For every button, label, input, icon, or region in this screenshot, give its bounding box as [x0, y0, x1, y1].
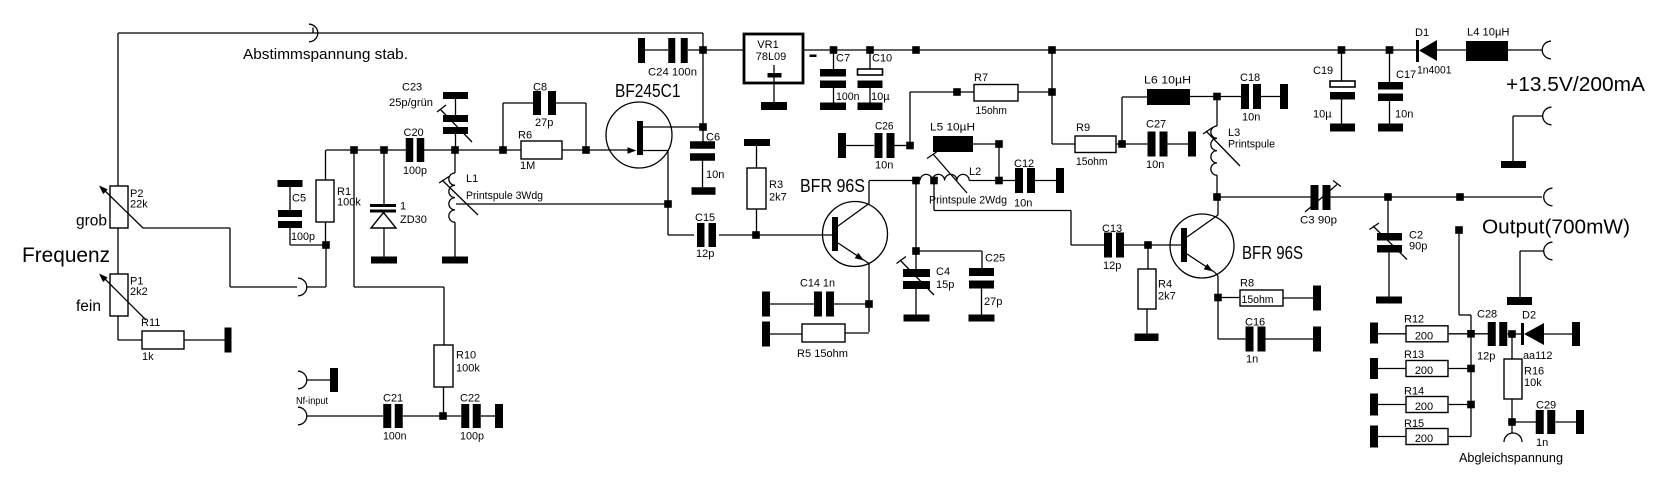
trimmer C23 arrow: [437, 105, 472, 142]
inductor L6 10uH: [1147, 89, 1190, 105]
capacitor C5 100p top terminal bar: [278, 180, 303, 187]
svg-text:R12: R12: [1404, 314, 1424, 326]
trimmer capacitor C2 90p: [1377, 197, 1402, 297]
svg-text:R8: R8: [1240, 278, 1254, 290]
svg-text:D1: D1: [1415, 27, 1429, 39]
svg-text:1: 1: [400, 201, 406, 213]
svg-text:C17: C17: [1396, 69, 1416, 81]
capacitor C23 lead: [455, 99, 457, 115]
zener ZD30 ground lead: [383, 228, 385, 257]
svg-text:22k: 22k: [130, 199, 148, 211]
node dot L6/C18/L3: [1213, 93, 1221, 101]
wire L4 to connector: [1508, 49, 1542, 51]
svg-text:BF245C1: BF245C1: [615, 81, 681, 101]
wire collector to L2: [869, 180, 920, 182]
svg-text:10µ: 10µ: [1313, 109, 1332, 121]
diode D1 1n4001 cathode bar: [1416, 40, 1419, 62]
node dot rail-503 C8/R6: [499, 146, 507, 154]
capacitor C5 plates: [278, 210, 302, 228]
svg-text:C26: C26: [875, 121, 894, 133]
inductor L1 coil Printspule 3Wdg: [449, 173, 455, 222]
svg-text:C14 1n: C14 1n: [800, 278, 835, 290]
wire source to C15: [668, 234, 694, 236]
capacitor C17 10n: [1378, 50, 1403, 124]
transistor Q1 gate arrow: [628, 147, 637, 154]
node dot output stray: [1456, 193, 1464, 201]
wire L2 tap down: [934, 181, 1104, 246]
wire C24 node to top wire: [702, 33, 704, 50]
resistor R8 15ohm: [1240, 290, 1283, 306]
inductor L5 10uH: [933, 136, 973, 152]
connector output return: [1520, 242, 1553, 297]
diode D2 terminal bar: [1572, 322, 1580, 346]
svg-text:L2: L2: [969, 166, 981, 178]
svg-text:1k: 1k: [142, 351, 154, 363]
capacitor C15 12p plates: [697, 223, 705, 247]
connector output socket: [1544, 188, 1553, 206]
node dot C4/C25: [912, 247, 920, 255]
svg-text:aa112: aa112: [1523, 350, 1553, 362]
node dot R3-base: [752, 231, 760, 239]
wire R8 right: [1283, 297, 1313, 299]
inductor L1 trimmer arrow: [439, 177, 478, 216]
transistor Q1 channel bar: [637, 121, 643, 155]
connector +13.5V input: [1542, 41, 1551, 59]
resistor R16 10k: [1504, 334, 1522, 422]
wire R5 left: [770, 333, 802, 335]
wire left drop to P2: [117, 33, 119, 186]
wire VR1 out rail: [803, 49, 1417, 51]
transistor Q2 collector: [838, 181, 869, 226]
wire C27 right: [1168, 143, 1189, 145]
trimmer capacitor C3 90p plates: [1311, 185, 1319, 210]
resistor R3 2k7 leads: [756, 146, 758, 235]
node dot L2 left: [912, 177, 920, 185]
wire node B up to R7: [910, 92, 974, 146]
svg-text:R16: R16: [1524, 366, 1544, 378]
transistor Q3 emitter lead: [1217, 276, 1219, 339]
node dot rail-455 L1/C23: [451, 146, 459, 154]
transistor Q2 BFR 96S circle: [823, 202, 888, 267]
svg-text:10n: 10n: [1242, 112, 1260, 124]
svg-text:1M: 1M: [520, 160, 535, 172]
svg-text:1n4001: 1n4001: [1417, 65, 1452, 77]
capacitor C12 terminal bar: [1056, 168, 1064, 193]
svg-text:Frequenz: Frequenz: [22, 243, 110, 267]
diode D2 triangle: [1524, 323, 1544, 345]
svg-text:L5 10µH: L5 10µH: [930, 122, 975, 134]
wire emitter to R8: [1218, 297, 1240, 299]
trimmer C2 arrow: [1370, 223, 1408, 260]
transistor Q1 BF245C1 circle: [606, 102, 672, 168]
svg-text:1n: 1n: [1536, 437, 1548, 449]
svg-text:R9: R9: [1076, 122, 1090, 134]
svg-text:12p: 12p: [1103, 260, 1121, 272]
node dot rail-354: [350, 146, 358, 154]
wire C22 to terminal: [481, 415, 495, 417]
wire L2node down to C4: [915, 181, 917, 252]
svg-text:C10: C10: [872, 53, 892, 65]
node dot C2 top: [1384, 193, 1392, 201]
svg-text:fein: fein: [76, 298, 101, 315]
node dot stray R7 lead: [953, 88, 961, 96]
svg-text:C13: C13: [1102, 223, 1122, 235]
wire C15 to base node: [719, 234, 832, 236]
resistor R8 terminal bar: [1313, 286, 1321, 311]
connector Nf-input upper: [298, 371, 330, 389]
wire to R9: [1052, 143, 1075, 145]
wire C3 to output: [1330, 196, 1542, 198]
label R16: [1524, 366, 1544, 390]
transistor Q3 emitter: [1187, 254, 1218, 276]
inductor L1 top lead: [454, 150, 456, 173]
node dot emitter2: [1214, 294, 1222, 302]
regulator VR1 gnd pin: [768, 65, 782, 102]
wire P1 to R11: [118, 316, 142, 340]
connector J2 on wiper wire: [298, 278, 307, 296]
svg-text:Printspule 2Wdg: Printspule 2Wdg: [929, 195, 1007, 207]
svg-text:L6 10µH: L6 10µH: [1144, 75, 1191, 87]
resistor R5 terminal bar: [762, 322, 770, 347]
capacitor C18 terminal bar: [1280, 84, 1288, 109]
wire rail to R9: [1051, 50, 1053, 144]
capacitor C20 100p plates: [406, 138, 414, 162]
trimmer capacitor C4 15p: [903, 251, 930, 315]
svg-text:R4: R4: [1158, 279, 1172, 291]
capacitor C28 12p: [1471, 322, 1521, 346]
node dot R10/C21/C22: [439, 412, 447, 420]
potentiometer P1 wiper arrow: [99, 274, 146, 321]
label VR1: [756, 39, 787, 63]
node dot emitter/C14: [865, 300, 873, 308]
capacitor C26 terminal bar: [838, 133, 846, 158]
svg-text:100p: 100p: [403, 165, 427, 177]
node dot rail stray: [912, 46, 920, 54]
svg-text:C28: C28: [1477, 309, 1497, 321]
capacitor C22 100p plates: [461, 404, 469, 428]
svg-text:R6: R6: [518, 130, 532, 142]
capacitor C22 terminal bar: [495, 404, 503, 428]
terminal bar R11: [225, 328, 232, 353]
wire R9 right: [1116, 143, 1148, 145]
trimmer capacitor C23 plates: [443, 115, 468, 134]
capacitor C6 lower lead: [702, 159, 704, 188]
capacitor C14 terminal bar: [762, 292, 770, 317]
ground output return: [1507, 297, 1532, 305]
node dot L2/C12: [995, 177, 1003, 185]
node dot R9/C27/L6: [1118, 140, 1126, 148]
capacitor C19 bottom bar: [1330, 124, 1355, 132]
resistor R12 200: [1378, 326, 1471, 342]
svg-text:C20: C20: [404, 127, 424, 139]
svg-text:100n: 100n: [383, 431, 407, 443]
svg-text:10n: 10n: [1014, 198, 1032, 210]
resistor R6 1M: [521, 141, 562, 159]
label P1: [130, 276, 148, 299]
wire D1 to L4: [1437, 49, 1466, 51]
resistor R14 terminal bar: [1370, 394, 1378, 416]
resistor R9 15ohm: [1075, 136, 1116, 153]
svg-text:15ohm: 15ohm: [1076, 156, 1108, 168]
svg-text:100k: 100k: [337, 197, 361, 209]
resistor R7 15ohm: [974, 85, 1018, 102]
terminal bar Nf upper: [330, 368, 338, 392]
inductor L3 top lead: [1216, 97, 1218, 127]
capacitor C17 bottom bar: [1378, 124, 1403, 132]
capacitor C24 100n: [645, 38, 744, 63]
capacitor C14 1n: [770, 292, 869, 317]
wire connector to C5 node: [307, 245, 326, 287]
svg-text:R5 15ohm: R5 15ohm: [797, 348, 848, 360]
svg-text:C16: C16: [1245, 317, 1265, 329]
label R10: [456, 350, 480, 375]
svg-text:12p: 12p: [696, 248, 714, 260]
label P2: [130, 188, 148, 211]
transistor Q3 base bar: [1181, 228, 1187, 262]
svg-text:R11: R11: [141, 317, 160, 329]
svg-text:C18: C18: [1240, 72, 1260, 84]
wire rail C20 to R6: [424, 149, 521, 151]
wire C12 right: [1035, 180, 1056, 182]
svg-text:C25: C25: [985, 253, 1005, 265]
resistor R5 15ohm: [802, 324, 845, 342]
node dot C24-VR1: [699, 46, 707, 54]
svg-text:Printspule 3Wdg: Printspule 3Wdg: [466, 190, 543, 202]
svg-text:C21: C21: [383, 393, 403, 405]
capacitor C8 plates: [533, 91, 556, 115]
svg-text:1n: 1n: [1246, 354, 1258, 366]
svg-text:2k7: 2k7: [1158, 291, 1176, 303]
svg-text:27p: 27p: [984, 296, 1002, 308]
node dot L3/C3/collector: [1213, 193, 1221, 201]
wire C13 to base2: [1124, 244, 1181, 246]
wire to C25: [916, 251, 982, 268]
zener diode ZD30 triangle: [371, 213, 396, 229]
svg-text:C6: C6: [706, 132, 720, 144]
ground C4: [904, 315, 930, 322]
ground C2: [1376, 297, 1402, 304]
node dot rail R7 feed: [1048, 46, 1056, 54]
transistor Q2 base bar: [832, 217, 838, 251]
resistor R15 200: [1378, 429, 1471, 445]
transistor Q3 collector: [1187, 197, 1218, 237]
node dot L5 right: [995, 140, 1003, 148]
svg-text:+13.5V/200mA: +13.5V/200mA: [1506, 73, 1645, 96]
svg-text:C19: C19: [1313, 65, 1333, 77]
node dot source-tap: [664, 200, 672, 208]
wire C18 right: [1261, 96, 1280, 98]
node dot R7 right: [1048, 88, 1056, 96]
svg-text:C3 90p: C3 90p: [1300, 215, 1337, 227]
capacitor C8 27p branch wires: [503, 103, 586, 150]
svg-text:D2: D2: [1522, 310, 1536, 322]
node dot C13/R4/base: [1144, 241, 1152, 249]
connector Nf-input lower: [298, 407, 307, 425]
node dot C19: [1338, 46, 1346, 54]
inductor L3 trimmer arrow: [1203, 128, 1240, 167]
resistor R1 100k: [316, 150, 334, 245]
wire L1 tap to JFET source: [456, 203, 668, 205]
svg-text:12p: 12p: [1477, 351, 1495, 363]
trimmer C4 arrow: [897, 257, 935, 296]
ground VR1: [761, 102, 787, 110]
svg-text:10n: 10n: [706, 169, 724, 181]
wire C5 to node A: [290, 228, 326, 245]
capacitor C25 27p: [969, 268, 994, 315]
trimmer C3 arrow: [1305, 181, 1341, 213]
svg-text:C5: C5: [292, 193, 306, 205]
wire P2 to P1: [117, 228, 119, 274]
node dot C7: [830, 46, 838, 54]
inductor L2 trimmer arrow: [927, 152, 967, 193]
wire R11 to terminal: [184, 339, 225, 341]
capacitor C12 10n plates: [1015, 168, 1023, 193]
transistor Q1 drain wire: [643, 126, 703, 128]
wire L5 to L2 node: [998, 144, 1000, 180]
node A junction dot: [322, 241, 330, 249]
wire down to drain node: [702, 50, 704, 145]
wire Abstimmspannung net top: [118, 32, 703, 34]
capacitor C5 lead: [289, 187, 291, 210]
wire output node down to bus: [1459, 230, 1471, 437]
svg-text:R15: R15: [1404, 418, 1424, 430]
wire C21 to node: [403, 415, 461, 417]
svg-text:L3: L3: [1228, 127, 1240, 139]
capacitor C16 1n: [1218, 327, 1313, 352]
svg-text:R14: R14: [1404, 386, 1424, 398]
node dot L2 tap: [930, 177, 938, 185]
minus sign: [810, 55, 817, 58]
node dot rail-586: [582, 146, 590, 154]
svg-text:200: 200: [1415, 331, 1433, 343]
node dot C17: [1386, 46, 1394, 54]
node dot R12: [1467, 330, 1475, 338]
capacitor C6 terminal bar: [692, 187, 716, 195]
resistor R13 200: [1378, 361, 1471, 377]
resistor R11 1k: [142, 331, 184, 349]
capacitor C7 bottom bar: [820, 103, 846, 111]
svg-text:10k: 10k: [1524, 377, 1542, 389]
connector Abgleichspannung: [1504, 422, 1522, 442]
ground C25: [969, 315, 995, 322]
svg-text:C8: C8: [533, 82, 547, 94]
wire node354 down to R10 path: [354, 150, 444, 345]
node dot C10: [866, 46, 874, 54]
label R1: [337, 186, 361, 209]
zener diode ZD30 lead: [383, 150, 385, 204]
capacitor C18 10n plates: [1241, 84, 1249, 109]
resistor R4 2k7 leads: [1147, 245, 1148, 334]
svg-text:C23: C23: [402, 82, 422, 94]
svg-text:100k: 100k: [456, 363, 480, 375]
inductor L3 coil Printspule: [1211, 126, 1217, 175]
wire osc rail left: [326, 149, 407, 151]
svg-text:R13: R13: [1404, 349, 1424, 361]
regulator VR1 78L09 box: [744, 34, 803, 83]
resistor R15 terminal bar: [1370, 426, 1378, 448]
svg-text:Abgleichspannung: Abgleichspannung: [1459, 450, 1563, 465]
capacitor C16 terminal bar: [1313, 327, 1321, 352]
svg-text:R7: R7: [974, 72, 988, 84]
resistor R3 2k7: [747, 168, 766, 209]
svg-text:15p: 15p: [936, 279, 954, 291]
resistor R3 top terminal bar: [744, 139, 770, 146]
transistor Q2 emitter lead: [868, 263, 870, 332]
diode D1 triangle: [1419, 40, 1437, 61]
svg-text:15ohm: 15ohm: [1242, 294, 1274, 306]
svg-text:200: 200: [1415, 433, 1433, 445]
wire L5 right: [973, 143, 999, 145]
svg-text:15ohm: 15ohm: [976, 105, 1008, 117]
potentiometer P1 2k2 body: [110, 274, 128, 316]
svg-text:2k7: 2k7: [769, 192, 787, 204]
svg-text:VR1: VR1: [757, 39, 778, 51]
svg-text:C24 100n: C24 100n: [648, 67, 697, 79]
svg-text:Printspule: Printspule: [1228, 139, 1275, 151]
wire R5 right to emitter: [845, 332, 869, 334]
resistor R10 100k: [434, 345, 453, 416]
svg-text:L1: L1: [466, 173, 478, 185]
node dot rail-384 ZD30: [380, 146, 388, 154]
svg-text:BFR 96S: BFR 96S: [1242, 243, 1303, 263]
resistor R14 200: [1378, 397, 1471, 413]
label R3: [769, 179, 787, 204]
wire R6 to gate: [562, 149, 633, 151]
ground L1: [442, 257, 468, 264]
wire L2 right to C12: [969, 180, 1015, 182]
capacitor C23 lead lower: [455, 134, 457, 150]
capacitor C21 100n plates: [383, 404, 391, 428]
capacitor C13 12p plates: [1104, 233, 1112, 258]
capacitor C7 100n: [820, 50, 846, 103]
svg-text:200: 200: [1415, 401, 1433, 413]
svg-text:90p: 90p: [1409, 241, 1427, 253]
svg-text:10µ: 10µ: [871, 91, 890, 103]
capacitor C23 terminal bar: [443, 92, 468, 99]
wire D2 to terminal: [1544, 333, 1572, 335]
wire L3 node to C3: [1217, 196, 1311, 198]
potentiometer P2 wiper arrow: [99, 186, 143, 229]
inductor L1 bottom lead: [454, 222, 456, 257]
svg-text:BFR 96S: BFR 96S: [800, 176, 865, 196]
capacitor C24 terminal bar: [638, 38, 645, 63]
svg-text:100p: 100p: [460, 431, 484, 443]
ground ZD30: [371, 257, 397, 264]
svg-text:25p/grün: 25p/grün: [389, 97, 433, 109]
inductor L4 10uH: [1466, 41, 1508, 61]
svg-text:C4: C4: [936, 266, 950, 278]
transistor Q1 source wire: [643, 151, 668, 236]
capacitor C26 10n: [846, 133, 910, 158]
node dot bus start: [1455, 226, 1463, 234]
ground +13.5V return: [1501, 161, 1526, 168]
svg-text:10n: 10n: [1395, 109, 1413, 121]
ground R4: [1135, 334, 1159, 342]
inductor L2 coil Printspule 2Wdg: [920, 174, 969, 180]
capacitor C19 10u electrolytic: [1330, 50, 1355, 124]
svg-text:C12: C12: [1014, 158, 1034, 170]
node dot R14: [1467, 401, 1475, 409]
resistor R12 terminal bar: [1370, 323, 1378, 344]
potentiometer P2 22k body: [110, 186, 128, 228]
connector J1 on Abstimmspannung wire: [309, 24, 318, 42]
capacitor C27 10n plates: [1148, 132, 1156, 157]
svg-text:Output(700mW): Output(700mW): [1482, 216, 1630, 239]
svg-text:2k2: 2k2: [130, 286, 148, 298]
svg-text:ZD30: ZD30: [400, 214, 427, 226]
node dot C28/D2/R16: [1508, 330, 1516, 338]
zener diode ZD30 cathode bars: [370, 204, 396, 213]
